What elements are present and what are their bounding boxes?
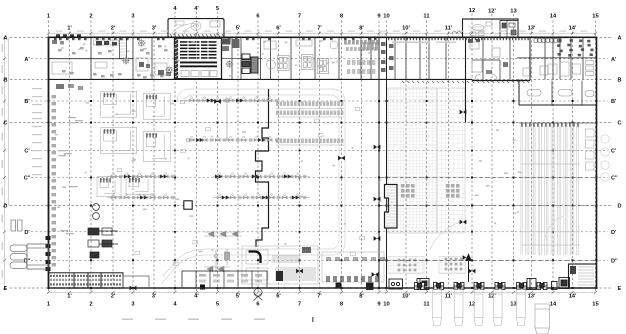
outer wall bottom bbox=[48, 287, 598, 289]
svg-text:8': 8' bbox=[359, 294, 364, 300]
top right corner rooms dense fixtures bbox=[557, 39, 594, 57]
svg-text:B': B' bbox=[611, 99, 617, 105]
external tanks left bbox=[10, 220, 49, 269]
svg-text:7': 7' bbox=[317, 26, 322, 32]
svg-text:11: 11 bbox=[423, 14, 430, 20]
svg-text:11': 11' bbox=[445, 294, 453, 300]
dim marks mid-left bbox=[58, 117, 83, 234]
left dimension micro text bbox=[2, 44, 4, 278]
svg-text:14: 14 bbox=[550, 14, 557, 20]
dark arrows in pipe rows bbox=[124, 99, 299, 200]
grid line 14 bbox=[550, 14, 557, 308]
survey symbol on dim line bbox=[452, 32, 462, 34]
grid line 6' bbox=[276, 26, 281, 300]
svg-text:3': 3' bbox=[152, 294, 157, 300]
bottom hatch patch right bbox=[439, 257, 466, 274]
grid line 3 bbox=[131, 14, 135, 308]
conveyor with arrows lower bbox=[204, 266, 230, 272]
grid line 8 bbox=[340, 14, 344, 308]
pipe run row D left bbox=[107, 194, 175, 199]
grid row C bbox=[4, 121, 622, 127]
conveyor with arrows upper bbox=[204, 231, 242, 237]
svg-text:D'': D'' bbox=[611, 259, 618, 265]
secondary left dim line bbox=[8, 37, 10, 206]
grid line 3' bbox=[152, 26, 157, 300]
stair box on fire wall bbox=[385, 185, 398, 229]
grid line 5' bbox=[236, 26, 241, 300]
grid line 1' bbox=[67, 26, 72, 300]
svg-text:2: 2 bbox=[89, 14, 92, 20]
small rooms grid 9-10 bbox=[381, 42, 394, 72]
left dim text stack bbox=[32, 88, 42, 175]
flow meter symbol grid 6 bottom bbox=[254, 289, 263, 301]
AGV loop path bbox=[161, 89, 345, 284]
flow arrow grid 12 bottom bbox=[466, 255, 471, 283]
crosshatch storage area light bbox=[437, 88, 465, 233]
extra top band fixtures left bbox=[58, 45, 170, 78]
page mark bottom center bbox=[312, 317, 314, 322]
pipe riser at zigzag bbox=[226, 97, 228, 140]
svg-text:12': 12' bbox=[488, 294, 496, 300]
bottom dimension line bbox=[47, 291, 597, 294]
dark locker column right of hall bbox=[242, 54, 258, 74]
grid row B bbox=[4, 78, 622, 84]
bottom left room block bbox=[49, 273, 124, 288]
equipment box on row D bbox=[184, 201, 192, 209]
svg-text:1': 1' bbox=[67, 294, 72, 300]
svg-text:3': 3' bbox=[152, 26, 157, 32]
dark dash overlay rows right half bbox=[49, 178, 597, 289]
grid row B' bbox=[24, 99, 617, 105]
top dimension micro text bbox=[56, 31, 588, 32]
svg-text:10': 10' bbox=[402, 294, 410, 300]
pump cluster left lower bbox=[88, 204, 118, 258]
wall row A' segments bbox=[49, 57, 597, 60]
grid line 1 bbox=[47, 14, 51, 308]
svg-text:2': 2' bbox=[111, 26, 116, 32]
svg-text:5': 5' bbox=[236, 294, 241, 300]
trucks at docks bbox=[433, 290, 442, 326]
grid row D bbox=[4, 204, 622, 210]
svg-text:C: C bbox=[618, 121, 622, 127]
svg-text:2: 2 bbox=[89, 302, 92, 308]
svg-text:4': 4' bbox=[194, 6, 199, 12]
grid line 15 bbox=[592, 14, 599, 308]
grid line 12 bbox=[469, 8, 475, 308]
wall fixtures D-E left bbox=[46, 236, 51, 271]
grid intersection nodes bbox=[48, 100, 598, 289]
svg-text:11: 11 bbox=[423, 302, 430, 308]
grid line 9 bbox=[377, 14, 381, 308]
svg-text:C'': C'' bbox=[24, 176, 31, 182]
pipe run row C center bbox=[185, 136, 278, 141]
equipment row room 8-8' bbox=[344, 40, 379, 74]
dark fixtures at grid 5-5' top bbox=[222, 39, 240, 52]
roof block between grid 4 and 5 bbox=[168, 19, 224, 38]
bottom hatch patch left bbox=[388, 257, 424, 274]
pallet clusters in hatch bbox=[401, 184, 415, 198]
grid line 10' bbox=[402, 26, 410, 300]
svg-text:D: D bbox=[618, 204, 622, 210]
svg-text:15: 15 bbox=[592, 14, 599, 20]
svg-text:C: C bbox=[4, 121, 8, 127]
top right block rooms 12-15 bbox=[470, 42, 548, 79]
wall-side equipment strip bbox=[52, 95, 57, 266]
svg-text:A: A bbox=[618, 36, 622, 42]
svg-text:1': 1' bbox=[67, 26, 72, 32]
dock door clamps bbox=[415, 283, 425, 290]
racking strips right bbox=[521, 126, 580, 256]
svg-text:13': 13' bbox=[528, 294, 536, 300]
wall grid 12 upper bbox=[465, 37, 467, 122]
svg-text:13: 13 bbox=[510, 9, 517, 15]
grid line 13 bbox=[510, 9, 517, 308]
svg-text:13': 13' bbox=[528, 26, 536, 32]
scatter texture marks bbox=[55, 40, 522, 252]
pipe run row C'' left bbox=[107, 173, 175, 178]
grid row E bbox=[4, 286, 622, 292]
grid line 6 bbox=[256, 14, 260, 308]
black pipe elbow bbox=[249, 252, 261, 264]
svg-text:7': 7' bbox=[317, 294, 322, 300]
stair shaft room bbox=[120, 37, 127, 58]
grid line 11 bbox=[423, 14, 430, 308]
wall ladder equipment right bbox=[586, 129, 595, 170]
door and window marks on top wall bbox=[54, 38, 529, 43]
grid line 7' bbox=[317, 26, 322, 300]
vertical pipe cluster bbox=[215, 249, 230, 272]
electrical block above E bbox=[242, 246, 384, 284]
svg-text:7: 7 bbox=[298, 14, 301, 20]
grid line 8' bbox=[359, 26, 364, 300]
roof items top-left corner bbox=[56, 34, 81, 37]
grid line 4' bbox=[194, 6, 199, 300]
svg-text:7: 7 bbox=[298, 302, 301, 308]
svg-text:B: B bbox=[618, 78, 622, 84]
svg-text:C': C' bbox=[24, 149, 30, 155]
racking area top edge bbox=[519, 122, 597, 124]
wall grid 13 upper bbox=[529, 37, 531, 80]
valve symbols on walls bbox=[130, 99, 476, 290]
grid line 7 bbox=[298, 14, 301, 308]
grid line 10 bbox=[383, 14, 389, 308]
bottom right corner stair room bbox=[569, 264, 597, 288]
grid line 14' bbox=[569, 26, 577, 300]
machine cluster A2 bbox=[101, 128, 137, 154]
svg-text:A: A bbox=[4, 36, 8, 42]
wall row B'' right block bbox=[519, 104, 597, 106]
left dimension line bbox=[3, 36, 6, 290]
machine cluster A3 bbox=[97, 177, 121, 197]
svg-text:E: E bbox=[618, 286, 622, 292]
dark tick on E at grid 4' bbox=[200, 285, 205, 290]
pipe run row C'' center bbox=[213, 173, 310, 178]
grid row A' bbox=[24, 57, 617, 63]
svg-text:5': 5' bbox=[236, 26, 241, 32]
svg-text:C': C' bbox=[611, 149, 617, 155]
fire wall grid 10 bbox=[386, 37, 388, 288]
office tables room 6'-7 bbox=[278, 56, 290, 71]
large truck bbox=[535, 304, 550, 334]
equipment train rows bbox=[276, 102, 343, 144]
trees right side bbox=[601, 135, 609, 181]
faint bottom left marks bbox=[122, 319, 265, 320]
svg-text:4': 4' bbox=[194, 294, 199, 300]
dark room patches top-left bbox=[52, 40, 171, 76]
machine cluster B2 bbox=[143, 132, 170, 162]
grid row A bbox=[4, 36, 622, 42]
tank room annex bbox=[27, 244, 49, 269]
yard curve right bbox=[430, 222, 460, 250]
svg-text:10: 10 bbox=[383, 302, 389, 308]
grid row C' bbox=[24, 149, 617, 155]
window row right block bbox=[534, 39, 561, 42]
machine cluster A1 bbox=[101, 91, 137, 117]
bottom center room block bbox=[182, 271, 267, 288]
svg-text:12': 12' bbox=[488, 9, 496, 15]
rooms row B-B'' right pills bbox=[527, 81, 594, 106]
corridor fixtures row B-B' left bbox=[56, 84, 83, 90]
svg-text:14': 14' bbox=[569, 26, 577, 32]
left rooms furniture bbox=[52, 40, 338, 75]
svg-text:10': 10' bbox=[402, 26, 410, 32]
grid line 11' bbox=[445, 26, 453, 300]
svg-text:D': D' bbox=[24, 230, 30, 236]
svg-text:6': 6' bbox=[276, 294, 281, 300]
svg-text:C'': C'' bbox=[611, 176, 618, 182]
zigzag wall bbox=[256, 89, 269, 247]
grid line 12' bbox=[488, 9, 496, 300]
grid line 2 bbox=[89, 14, 92, 308]
grid line 5 bbox=[216, 6, 220, 308]
svg-text:15: 15 bbox=[592, 302, 599, 308]
bottom left annex room bbox=[123, 276, 149, 288]
outer wall left bbox=[48, 37, 50, 289]
machine cluster B1 bbox=[143, 93, 170, 119]
room 12-13 interior walls bbox=[472, 60, 500, 79]
tiny gray symbols scatter bbox=[117, 99, 364, 266]
outer wall right bbox=[596, 37, 598, 289]
svg-text:14: 14 bbox=[550, 302, 557, 308]
svg-text:6': 6' bbox=[276, 26, 281, 32]
svg-text:B: B bbox=[4, 78, 8, 84]
svg-text:14': 14' bbox=[569, 294, 577, 300]
grid row C'' bbox=[24, 176, 619, 182]
svg-text:D': D' bbox=[611, 230, 617, 236]
svg-text:8': 8' bbox=[359, 26, 364, 32]
top dimension line bbox=[47, 32, 597, 35]
svg-text:2': 2' bbox=[111, 294, 116, 300]
grid row D'' bbox=[24, 259, 619, 265]
roof block between grid 12 and 13 bbox=[463, 19, 519, 37]
svg-text:B': B' bbox=[24, 99, 30, 105]
svg-text:E: E bbox=[4, 286, 8, 292]
top band partitions bbox=[91, 37, 583, 79]
grid row D' bbox=[24, 230, 617, 236]
crosshatch storage area dense bbox=[388, 88, 437, 233]
grid line 2' bbox=[111, 26, 116, 300]
svg-text:11': 11' bbox=[445, 26, 453, 32]
production hall block grids 4-5 bbox=[175, 38, 222, 78]
svg-text:12: 12 bbox=[469, 8, 475, 14]
svg-text:D: D bbox=[4, 204, 8, 210]
fan symbols bbox=[137, 39, 145, 47]
svg-text:A': A' bbox=[24, 57, 30, 63]
fire wall grid 9 bbox=[378, 37, 380, 288]
grid line 4 bbox=[173, 6, 177, 308]
pipe run row B' center bbox=[185, 97, 278, 102]
wall row B bbox=[49, 78, 473, 80]
svg-text:10: 10 bbox=[383, 14, 389, 20]
pipe run row D center bbox=[213, 194, 310, 199]
outer wall top bbox=[48, 36, 598, 38]
machine cluster B3 bbox=[126, 177, 154, 195]
svg-text:A': A' bbox=[611, 57, 617, 63]
pallet dot clusters bottom bbox=[398, 259, 406, 272]
grid line 13' bbox=[528, 26, 536, 300]
dock levelers black bbox=[336, 278, 570, 290]
tick hatch under B wall right bbox=[402, 81, 529, 83]
